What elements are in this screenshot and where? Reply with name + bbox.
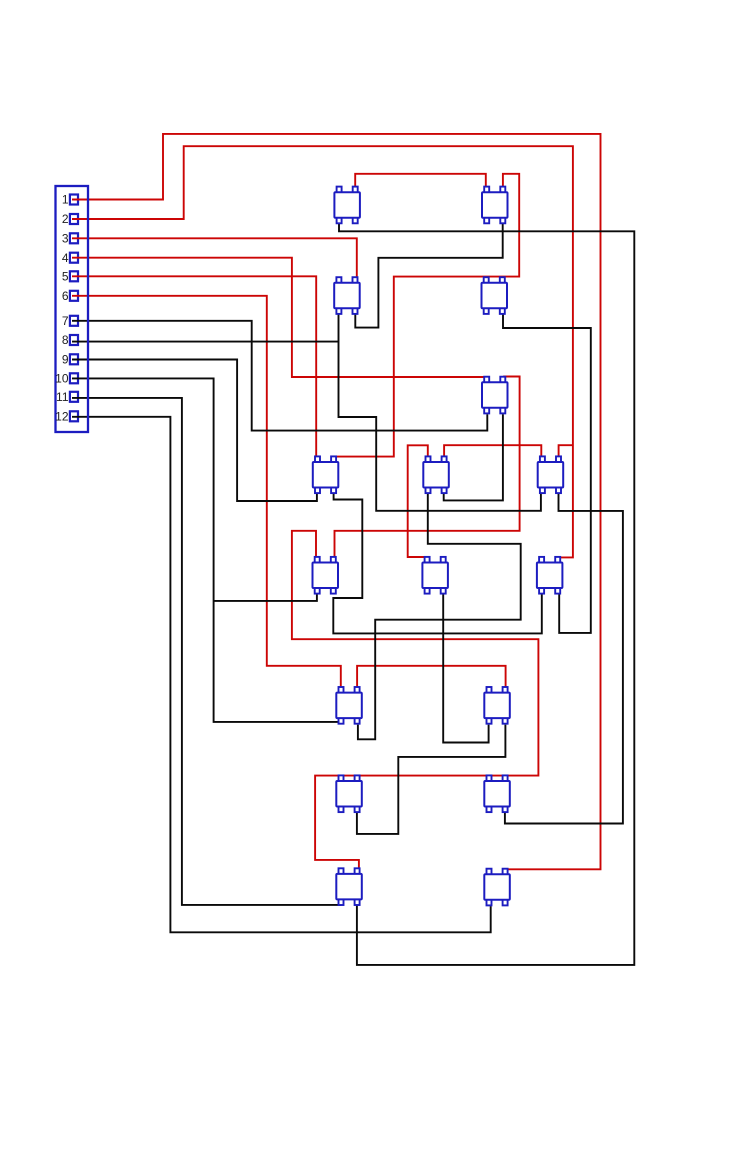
svg-text:1: 1	[62, 193, 69, 207]
svg-text:5: 5	[62, 270, 69, 284]
svg-text:12: 12	[55, 410, 69, 424]
svg-text:3: 3	[62, 232, 69, 246]
svg-text:4: 4	[62, 251, 69, 265]
svg-text:2: 2	[62, 212, 69, 226]
svg-text:6: 6	[62, 289, 69, 303]
svg-text:10: 10	[55, 372, 69, 386]
svg-text:7: 7	[62, 314, 69, 328]
svg-text:8: 8	[62, 333, 69, 347]
svg-text:11: 11	[56, 390, 69, 404]
svg-text:9: 9	[62, 353, 69, 367]
